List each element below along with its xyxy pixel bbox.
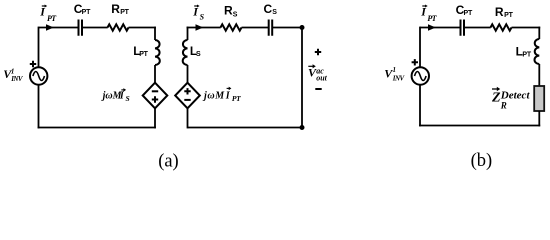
svg-text:I: I bbox=[225, 91, 231, 102]
wire: detect impedance to bottom bbox=[538, 111, 540, 126]
wire: circuit b left vertical upper bbox=[419, 27, 421, 68]
wire: C_S to top-right junction bbox=[273, 27, 302, 29]
inductor L_PT coil bbox=[155, 40, 160, 65]
svg-text:out: out bbox=[316, 74, 327, 83]
source V1_INV sine wave circuit b bbox=[415, 72, 427, 81]
svg-text:PT: PT bbox=[139, 51, 148, 58]
svg-text:S: S bbox=[126, 94, 130, 103]
svg-text:(b): (b) bbox=[471, 151, 493, 171]
svg-text:jωM: jωM bbox=[202, 91, 225, 102]
resistor R_PT zigzag circuit b bbox=[491, 24, 512, 30]
svg-text:C: C bbox=[264, 2, 273, 16]
svg-text:R: R bbox=[224, 4, 233, 18]
svg-text:INV: INV bbox=[392, 75, 406, 83]
label C_PT circuit b bbox=[456, 3, 473, 17]
wire: L_S to dependent source 2 bbox=[187, 65, 189, 83]
wire: loop1 right vertical above L_PT bbox=[154, 27, 156, 40]
label I_PT circuit b bbox=[420, 5, 437, 24]
svg-text:PT: PT bbox=[464, 10, 473, 17]
vector harpoon over I_PT circuit b bbox=[422, 5, 426, 7]
wire: R_S to C_S bbox=[242, 27, 269, 29]
wire: R_PT to top-right corner of loop1 bbox=[129, 27, 156, 29]
wire: L_PT coil to detect impedance bbox=[538, 64, 540, 86]
svg-text:Z: Z bbox=[491, 91, 501, 106]
inductor L_S coil bbox=[183, 40, 188, 65]
wire: L_PT to dependent source 1 bbox=[154, 65, 156, 83]
label L_S circuit a bbox=[190, 44, 201, 58]
wire: loop1 bottom bbox=[38, 127, 156, 129]
wire: circuit b right vertical above L_PT bbox=[538, 27, 540, 39]
svg-text:PT: PT bbox=[120, 9, 129, 16]
wire: diamond 2 to loop2 bottom bbox=[187, 108, 189, 128]
capacitor C_S plates bbox=[269, 20, 273, 36]
wire: loop2 top from corner to R_S bbox=[187, 27, 221, 29]
plus sign inside diamond 1 bbox=[152, 96, 158, 102]
svg-text:R: R bbox=[495, 5, 504, 19]
label C_PT circuit a bbox=[74, 2, 91, 16]
vector harpoon over I_S circuit a bbox=[194, 5, 198, 7]
arrow of current I_S circuit a bbox=[196, 24, 204, 30]
caption (a) bbox=[158, 151, 179, 171]
dependent source jwM_Is diamond bbox=[143, 83, 168, 109]
wire: loop1 left vertical upper bbox=[38, 27, 40, 68]
svg-text:PT: PT bbox=[522, 51, 531, 58]
impedance Z_R_Detect gray box bbox=[534, 86, 544, 111]
resistor R_S zigzag bbox=[221, 24, 242, 30]
wire: between C_PT and R_PT circuit b bbox=[465, 27, 491, 29]
label Z_R_Detect bbox=[491, 90, 530, 111]
wire: between C_PT and R_PT bbox=[83, 27, 108, 29]
plus sign of output voltage bbox=[315, 49, 321, 55]
svg-text:PT: PT bbox=[232, 94, 241, 103]
minus sign of output voltage bbox=[315, 88, 321, 90]
label V_out_ac bbox=[308, 66, 328, 83]
minus sign inside diamond 2 bbox=[184, 99, 190, 101]
label V1_INV circuit a bbox=[3, 67, 24, 83]
label R_S circuit a bbox=[224, 4, 238, 19]
plus sign inside diamond 2 bbox=[184, 88, 190, 94]
label I_PT circuit a bbox=[39, 5, 57, 24]
source V1_INV sine wave bbox=[33, 72, 45, 81]
label jwM_Is of dependent source 1 bbox=[101, 91, 130, 103]
svg-text:R: R bbox=[111, 2, 120, 16]
svg-text:S: S bbox=[272, 9, 277, 16]
svg-text:PT: PT bbox=[427, 14, 437, 23]
resistor R_PT zigzag bbox=[108, 24, 129, 30]
wire: circuit b bottom bbox=[419, 125, 540, 127]
plus sign of source V1_INV bbox=[30, 61, 36, 67]
vector harpoon over V_out bbox=[308, 65, 314, 67]
wire: circuit b left vertical lower bbox=[419, 85, 421, 127]
svg-text:I: I bbox=[119, 91, 125, 102]
svg-text:S: S bbox=[196, 51, 201, 58]
label jwM_Ipt of dependent source 2 bbox=[202, 91, 241, 103]
label R_PT circuit a bbox=[111, 2, 129, 16]
wire: loop2 right vertical bbox=[301, 28, 303, 128]
junction dot bottom right of loop2 bbox=[300, 125, 305, 130]
label L_PT circuit b bbox=[516, 44, 532, 58]
label R_PT circuit b bbox=[495, 5, 514, 19]
svg-text:S: S bbox=[233, 12, 238, 19]
plus sign of source V1_INV circuit b bbox=[412, 59, 418, 65]
source V1_INV circle bbox=[30, 67, 47, 84]
svg-text:1: 1 bbox=[393, 66, 397, 74]
arrow of current I_PT circuit b bbox=[428, 24, 436, 30]
wire: R_PT to top-right corner circuit b bbox=[512, 27, 541, 29]
svg-text:S: S bbox=[200, 12, 205, 21]
minus sign inside diamond 1 bbox=[152, 90, 158, 92]
vector harpoon over I_PT circuit a bbox=[42, 5, 46, 7]
svg-text:PT: PT bbox=[82, 9, 91, 16]
arrow of current I_PT circuit a bbox=[46, 24, 54, 30]
inductor L_PT coil circuit b bbox=[535, 39, 540, 64]
svg-text:PT: PT bbox=[504, 12, 513, 19]
label C_S circuit a bbox=[264, 2, 278, 16]
wire: circuit a loop1 top-left segment bbox=[39, 27, 78, 29]
vector harpoon over I in jwM_Is bbox=[121, 89, 124, 91]
junction dot top right of loop2 bbox=[300, 25, 305, 30]
svg-text:(a): (a) bbox=[158, 151, 179, 171]
label V1_INV circuit b bbox=[384, 66, 405, 82]
svg-text:R: R bbox=[500, 101, 507, 111]
vector harpoon over Z_R_Detect bbox=[492, 88, 498, 90]
vector harpoon over I in jwM_Ipt bbox=[227, 87, 230, 89]
capacitor C_PT plates bbox=[79, 20, 83, 36]
caption (b) bbox=[471, 151, 493, 171]
wire: circuit b top-left segment bbox=[420, 27, 460, 29]
label I_S circuit a bbox=[192, 5, 204, 22]
svg-text:PT: PT bbox=[47, 14, 57, 23]
label L_PT circuit a bbox=[133, 44, 148, 58]
svg-text:INV: INV bbox=[10, 75, 24, 83]
wire: diamond 1 to loop1 bottom bbox=[154, 108, 156, 128]
wire: loop2 left vertical upper bbox=[187, 27, 189, 40]
wire: loop2 bottom bbox=[188, 127, 303, 129]
wire: loop1 left vertical lower bbox=[38, 85, 40, 129]
dependent source jwM_Ipt diamond bbox=[175, 83, 200, 109]
capacitor C_PT plates circuit b bbox=[461, 20, 465, 36]
source V1_INV circle circuit b bbox=[412, 67, 429, 84]
